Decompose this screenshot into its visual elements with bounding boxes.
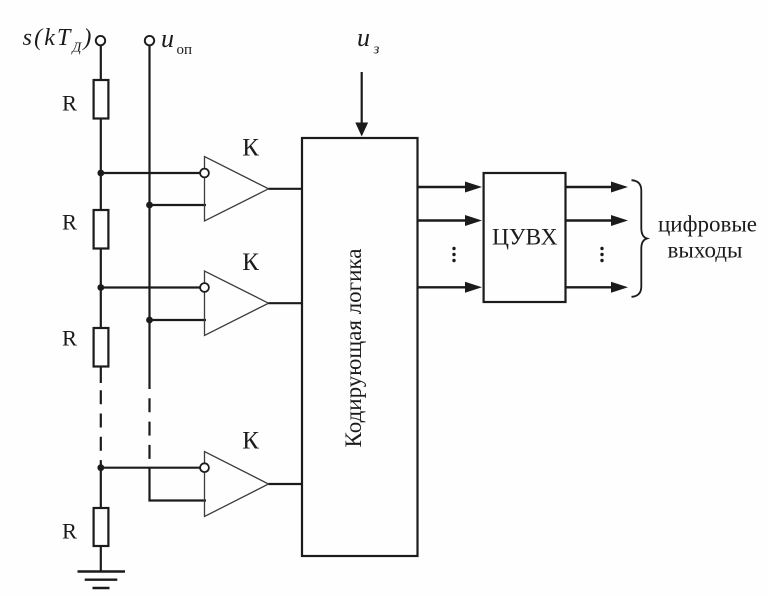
terminal u_op (145, 36, 154, 45)
svg-text:з: з (373, 42, 380, 58)
wire comparator2 output (269, 302, 304, 304)
svg-text:К: К (242, 427, 259, 454)
resistor R1 (94, 80, 109, 119)
wire left rail: node3 to R4 (100, 468, 102, 508)
wire arrow row2 box to CUVH (418, 219, 467, 221)
svg-text:R: R (62, 90, 77, 115)
input terminal s(kTd) (96, 36, 105, 45)
comparator U2 inverting input circle (200, 283, 209, 292)
svg-text:R: R (62, 518, 77, 543)
node 1 (97, 170, 104, 177)
svg-text:R: R (62, 210, 77, 235)
svg-text:R: R (62, 326, 77, 351)
CUVH box U5 (484, 173, 566, 302)
svg-text:s(kTД): s(kTД) (23, 25, 94, 56)
wire comparator1 output (269, 188, 304, 190)
svg-text:u: u (161, 24, 174, 53)
svg-text:выходы: выходы (668, 238, 743, 263)
wire u_op to comparator1 lower input (150, 204, 207, 206)
ellipsis dots left (452, 247, 455, 262)
comparator U3 triangle (205, 452, 269, 517)
wire arrow row3 box to CUVH (418, 286, 467, 288)
brace (632, 180, 648, 297)
wire node2 to comparator2 input (101, 286, 200, 288)
node on u_op rail (comp2) (146, 317, 153, 324)
wire u_op rail dashed (148, 398, 150, 459)
wire u_op rail solid upper (148, 45, 150, 389)
wire u_op rail solid lower (148, 468, 150, 501)
svg-text:ЦУВХ: ЦУВХ (492, 225, 558, 251)
comparator U2 triangle (205, 271, 269, 336)
node 2 (97, 284, 104, 291)
wire arrow row3 CUVH out (566, 286, 613, 288)
svg-text:Кодирующая логика: Кодирующая логика (341, 249, 366, 448)
comparator U1 inverting input circle (200, 169, 209, 178)
coding logic box U4 (302, 138, 418, 556)
ellipsis dots right (600, 247, 603, 262)
ground (78, 572, 126, 589)
svg-text:u: u (357, 23, 370, 52)
node on u_op rail (comp1) (146, 202, 153, 209)
wire u_op to comparator3 lower input (148, 499, 206, 501)
wire left rail: R2 to R3 (100, 249, 102, 329)
wire arrow row1 CUVH out (566, 186, 613, 188)
wire left rail: R1 to R2 (100, 119, 102, 211)
wire node1 to comparator1 input (101, 172, 200, 174)
wire u_op to comparator2 lower input (150, 319, 207, 321)
svg-text:оп: оп (177, 42, 193, 58)
wire u_z arrow (361, 72, 363, 124)
svg-text:К: К (242, 134, 259, 161)
wire comparator3 output (269, 483, 304, 485)
svg-text:цифровые: цифровые (658, 212, 757, 237)
wire R4 to ground (100, 546, 102, 572)
wire left rail: terminal to R1 (100, 45, 102, 80)
resistor R3 (94, 328, 109, 367)
comparator U3 inverting input circle (200, 463, 209, 472)
resistor R4 (94, 508, 109, 546)
wire arrow row2 CUVH out (566, 219, 613, 221)
svg-text:К: К (242, 249, 259, 276)
node 3 (97, 464, 104, 471)
wire node3 to comparator3 input (101, 467, 200, 469)
wire left rail: dashed continuation below R3 (100, 367, 102, 384)
comparator U1 triangle (205, 157, 269, 222)
wire arrow row1 box to CUVH (418, 186, 467, 188)
resistor R2 (94, 210, 109, 249)
